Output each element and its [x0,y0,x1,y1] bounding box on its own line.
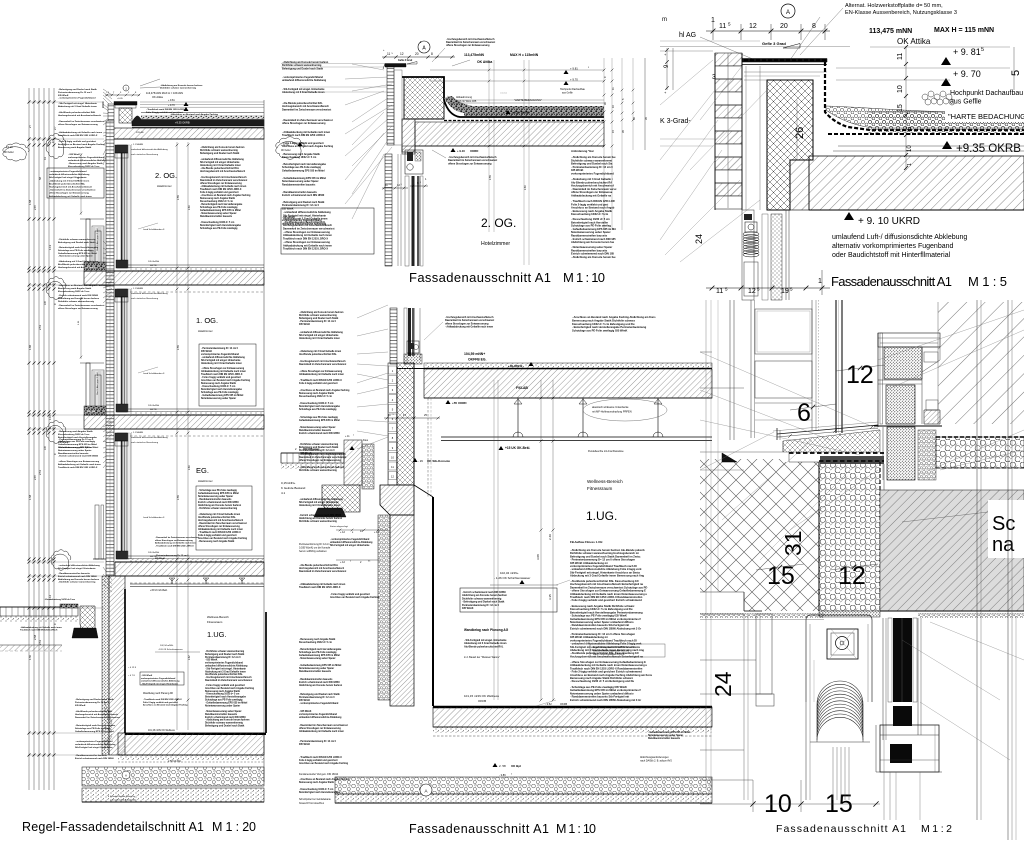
svg-text:Traufblech nach DIN EN 1253 LO: Traufblech nach DIN EN 1253 LORO-X [58,467,98,469]
E: left lower frame details [756,614,772,694]
svg-text:- 1.26 OK Schichtenwasser: - 1.26 OK Schichtenwasser [494,576,530,580]
svg-text:+15 UK GK-Bekl.: +15 UK GK-Bekl. [150,590,168,592]
svg-text:Abdichtung am Konsole herum fu: Abdichtung am Konsole herum fuehren [58,297,100,300]
svg-text:Glas H= Abst. gegen S verkl: Glas H= Abst. gegen S verkl [96,372,99,395]
svg-text:Pendelleuchte mit Anschlussdos: Pendelleuchte mit Anschlussdose [588,450,624,453]
B: interior dim verticals [488,60,490,232]
svg-text:- Attikaabdeckung mit Gefaelle: - Attikaabdeckung mit Gefaelle nach inne… [20,626,63,629]
svg-text:Attikaabdeckung mit Gefaelle n: Attikaabdeckung mit Gefaelle nach innen [58,463,101,466]
svg-text:- Alu-Blende pulverbeschichtet: - Alu-Blende pulverbeschichtet RAL [58,111,96,114]
svg-text:vorkomprimiertes Fugendichtban: vorkomprimiertes Fugendichtband [201,353,240,356]
svg-text:- Randdaemmstreifen bauseits: - Randdaemmstreifen bauseits [299,678,333,681]
svg-text:umlaufend diffusionsdichte Abk: umlaufend diffusionsdichte Abklebung [49,173,90,176]
C: pebble band green roof [826,106,1024,128]
svg-text:Daemmkeil im Zwischenraum vers: Daemmkeil im Zwischenraum verschweisst [299,456,346,459]
svg-text:umlaufend diffusionsdichte Abk: umlaufend diffusionsdichte Abklebung [330,541,373,544]
svg-text:- vorkomprimiertes Fugendichtb: - vorkomprimiertes Fugendichtband [49,170,87,173]
A: interior floor build-up lines [128,408,264,410]
svg-text:2.55: 2.55 [489,175,492,180]
svg-text:Attikaabdeckung mit Gefaelle n: Attikaabdeckung mit Gefaelle nach innen [201,370,247,373]
D: Kies strip [344,440,362,485]
svg-text:OKFFB EG.: OKFFB EG. [468,358,487,362]
svg-text:Abdeckung mit 3 Grad Gefaelle: Abdeckung mit 3 Grad Gefaelle innen [205,670,246,673]
svg-text:- Schutzlage aus PE-Folie zwei: - Schutzlage aus PE-Folie zweilagig [58,440,96,443]
C: long horizontal extension lines top left [660,46,850,48]
A: roof build-up dark band [132,116,264,126]
svg-text:- Hochzugsbereich mit Anschwei: - Hochzugsbereich mit Anschweissflansch [205,676,252,679]
E: lower window frame section [880,725,939,772]
svg-text:0kFTB: 0kFTB [150,409,157,411]
svg-text:Daemmkeil im Zwischenraum vers: Daemmkeil im Zwischenraum verschweisst [299,363,346,366]
svg-text:M 1 : 10: M 1 : 10 [563,270,605,285]
svg-text:aus Geflle: aus Geflle [950,99,982,106]
svg-text:2.55: 2.55 [177,495,180,500]
svg-text:19: 19 [781,288,789,295]
svg-text:- Dichtfolie schwarz wannenfoe: - Dichtfolie schwarz wannenfoermig [58,238,96,241]
svg-text:+ 4 12 8: + 4 12 8 [128,667,137,669]
svg-text:- 29: - 29 [418,459,423,463]
svg-text:- vorkomprimiertes Fugendichtb: - vorkomprimiertes Fugendichtband [299,702,339,705]
svg-text:Bemessung nach Angabe Statik: Bemessung nach Angabe Statik [299,392,335,395]
D: kerb concrete block [322,485,360,512]
svg-text:+ 1.1 MHRB: + 1.1 MHRB [131,144,144,146]
svg-text:- Anschluss an Bestand nach An: - Anschluss an Bestand nach Angabe Fachi… [200,194,251,197]
svg-text:vorkomprimiertes Fugendichtban: vorkomprimiertes Fugendichtband [571,172,614,176]
svg-text:- Attikaabdeckung mit Gefaelle: - Attikaabdeckung mit Gefaelle nach inne… [445,326,494,329]
D: basement wall [390,515,414,706]
E: left wall structure lines [700,351,712,353]
E: hatched anchor piece [924,410,940,424]
svg-text:Schutzlage aus PE-Folie zweila: Schutzlage aus PE-Folie zweilagig [205,699,243,702]
E: heavy corner mark [722,453,737,462]
svg-text:5: 5 [790,287,793,292]
svg-text:- Betonfertigteil nach Herstel: - Betonfertigteil nach Herstellerangabe … [572,325,647,329]
svg-text:umlaufend diffusionsdichte Abk: umlaufend diffusionsdichte Abklebung [131,436,168,439]
A: EG exterior: paving + kerb [0,607,78,616]
svg-text:2.58 UK Bpl: 2.58 UK Bpl [168,760,181,763]
svg-text:UK Bpl: UK Bpl [511,764,521,768]
svg-text:Anschluss an Bestand nach Anga: Anschluss an Bestand nach Angabe Faching [330,596,380,599]
B: right chain extra ticks [621,89,624,92]
svg-text:Folie 2-lagig verklebt und ges: Folie 2-lagig verklebt und gesichert [299,382,338,385]
B: mid dim row [382,187,408,189]
svg-text:Betonfertigteil nach Herstelle: Betonfertigteil nach Herstellerangabe [200,224,242,227]
svg-text:Hotelzimmer: Hotelzimmer [157,184,172,188]
svg-text:Estrich schwimmend nach DIN 18: Estrich schwimmend nach DIN 18560 Abdeck… [570,626,641,630]
svg-text:nach DAfStb 2. B. adicon AVS: nach DAfStb 2. B. adicon AVS [640,760,672,763]
svg-text:"HARTE BEDACHUNG": "HARTE BEDACHUNG" [948,112,1024,121]
svg-text:5: 5 [981,47,984,53]
svg-text:- Estrich schwimmend nach DIN: - Estrich schwimmend nach DIN 18560 [58,294,99,297]
C: small hardware center [745,222,757,232]
svg-text:Kiesschuettung 16/32 d= 5 cm: Kiesschuettung 16/32 d= 5 cm [58,433,89,436]
svg-text:- umlaufend diffusionsdichte A: - umlaufend diffusionsdichte Abklebung [201,356,245,359]
D: window above EG floor [390,308,397,364]
svg-text:- Hochzugsbereich mit Anschwei: - Hochzugsbereich mit Anschweissflansch [299,453,346,456]
svg-text:I-wnd Schallabsorber 8: I-wnd Schallabsorber 8 [143,228,165,231]
svg-text:Kiesschuettung 16/32 d= 5 cm: Kiesschuettung 16/32 d= 5 cm [68,165,99,168]
svg-text:2. 58: 2. 58 [499,764,506,768]
svg-text:OKFB: OKFB [560,702,567,706]
svg-text:Fitnessraum: Fitnessraum [207,620,223,624]
svg-text:+9.35 OKRB: +9.35 OKRB [175,121,190,125]
C: +9.35 OKRB [942,141,952,149]
svg-text:Fundamenterder VA4 gem. DIN 18: Fundamenterder VA4 gem. DIN 18014 [299,773,339,776]
svg-text:+ 9.10: + 9.10 [457,149,465,153]
svg-text:- Abdichtung am Konsole herum: - Abdichtung am Konsole herum fuehren [205,719,250,722]
A: balcony door sill block [84,406,106,415]
E: upper right wall sparse hatch [938,302,1024,424]
svg-text:Perimeterdaemmung D= 12 cm 0: Perimeterdaemmung D= 12 cm 0 [299,696,335,699]
svg-text:- umlaufend diffusionsdichte A: - umlaufend diffusionsdichte Abklebung [299,498,343,501]
svg-text:035 W/mK: 035 W/mK [462,607,474,610]
svg-text:Stb-Fertigteil mit eingel. Hin: Stb-Fertigteil mit eingel. Hinterkante [299,501,339,504]
svg-text:1.58: 1.58 [28,199,32,205]
svg-text:11: 11 [897,53,904,60]
svg-text:Befestigung und Duebel nach St: Befestigung und Duebel nach Statik [205,725,245,728]
svg-text:15: 15 [897,104,904,112]
svg-text:Alu-Blende pulverbeschichtet R: Alu-Blende pulverbeschichtet RAL [198,516,236,519]
svg-text:Gefle 3 Grad: Gefle 3 Grad [398,59,413,62]
svg-text:Hotelzimmer: Hotelzimmer [481,241,510,247]
E: ticks on sloped sill [788,434,792,438]
svg-text:Hochzugsbereich mit Anschweiss: Hochzugsbereich mit Anschweissflansch [200,170,246,173]
A: EG suspended ceiling [130,583,264,585]
svg-text:Gefaelledaemmung EPS 035 im Mi: Gefaelledaemmung EPS 035 im Mittel [299,419,340,422]
A: 1.OG note box [199,344,256,406]
E: glass pane double line [835,300,837,433]
svg-text:2.64: 2.64 [524,185,527,190]
svg-text:Abdeckung mit 3 Grad Gefaelle: Abdeckung mit 3 Grad Gefaelle innen [201,362,242,365]
svg-text:Schutzpotter ber Gebludekante: Schutzpotter ber Gebludekante [299,798,332,801]
svg-text:035 W/mK: 035 W/mK [201,351,212,353]
svg-text:Schutzlage aus PE-Folie zweila: Schutzlage aus PE-Folie zweilagig [201,391,239,394]
svg-text:Kiesschuettung 16/32 d= 5 cm: Kiesschuettung 16/32 d= 5 cm [58,290,89,293]
E: insulation wedge below sill [783,430,880,452]
drawing D: Fassadenausschnitt M 1:10 basement [281,305,712,836]
svg-text:- Bemessung nach Angabe Statik: - Bemessung nach Angabe Statik [299,638,336,641]
svg-text:- 3.86: - 3.86 [499,773,506,777]
svg-text:Wellness-Bereich: Wellness-Bereich [207,615,229,619]
svg-text:- Stb-Fertigteil mit eingel. H: - Stb-Fertigteil mit eingel. Hinterkante [141,682,179,685]
svg-text:- Hochzugsbereich mit Anschwei: - Hochzugsbereich mit Anschweissflansch [200,176,247,179]
D: basement floor slab [433,707,712,727]
svg-text:offene Stossfugen zur Entwaess: offene Stossfugen zur Entwaesserung [282,122,326,125]
svg-text:Notentwaesserung ueber Speier: Notentwaesserung ueber Speier [201,397,236,400]
A: section cut right edge [263,100,265,782]
A: framed note box left [47,168,104,198]
svg-text:6: 6 [797,399,811,427]
svg-text:- Folie 2-lagig verklebt und g: - Folie 2-lagig verklebt und gesichert [201,376,241,379]
B: bottom-left framed note [281,208,374,254]
svg-text:- Hochzugsbereich mit Anschwei: - Hochzugsbereich mit Anschweissflansch [299,360,346,363]
E: right edge verticals [976,300,978,820]
svg-text:+ 1.1 MHRB: + 1.1 MHRB [131,288,144,290]
A: window glazing run [117,289,127,412]
svg-text:Kies: Kies [363,438,369,442]
svg-text:Regel-Fassadendetailschnitt A: Regel-Fassadendetailschnitt A1 [22,820,204,834]
svg-text:Schutzlage aus PE-Folie zweila: Schutzlage aus PE-Folie zweilagig [200,206,238,209]
svg-text:+ 1.1 MHRB: + 1.1 MHRB [131,432,144,434]
svg-text:Attikadmmung: Attikadmmung [456,96,473,99]
drawing E: Fassadenausschnitt M 1:2 window sill [700,300,1024,840]
svg-text:offene Stossfugen zur Entwaess: offene Stossfugen zur Entwaesserung [49,192,89,195]
C: wall core verticals [745,66,747,210]
svg-text:2.51: 2.51 [38,324,42,330]
svg-text:Anschluss an Bestand nach Anga: Anschluss an Bestand nach Angabe Faching [299,762,349,765]
svg-text:2. OG.: 2. OG. [155,171,177,180]
svg-text:d= 8 cm WLG 035: d= 8 cm WLG 035 [456,100,477,103]
svg-text:M 1 : 20: M 1 : 20 [212,820,256,834]
svg-text:Perimeterdaemmung D= 12 cm 0: Perimeterdaemmung D= 12 cm 0 [205,656,241,659]
svg-text:- Abdeckung mit 3 Grad Gefaell: - Abdeckung mit 3 Grad Gefaelle innen [49,179,90,182]
svg-text:1.UG.: 1.UG. [207,630,227,639]
E: panel edge verticals [811,300,813,430]
svg-text:- Folie 2-lagig verklebt und g: - Folie 2-lagig verklebt und gesichert [330,593,370,596]
svg-text:- Abdichtung am Konsole herum: - Abdichtung am Konsole herum fuehren [200,146,245,149]
svg-text:Kiesschuettung 16/32 d= 5 cm: Kiesschuettung 16/32 d= 5 cm [299,395,332,398]
A: terrain line far left [0,644,62,646]
svg-text:Hochzugsbereich mit Anschweiss: Hochzugsbereich mit Anschweissflansch [49,186,93,189]
svg-text:- Kiesschuettung 16/32 d= 5 cm: - Kiesschuettung 16/32 d= 5 cm [201,385,235,388]
svg-text:umlaufend diffusionsdichte Abk: umlaufend diffusionsdichte Abklebung [131,292,168,295]
svg-text:offene Stossfugen zur Entwaess: offene Stossfugen zur Entwaesserung [198,525,240,528]
svg-text:Perimeterdaemmung D= 12 cm 0: Perimeterdaemmung D= 12 cm 0 [58,91,93,94]
svg-text:5: 5 [393,414,394,416]
svg-text:nach statischer Berechnung: nach statischer Berechnung [131,441,159,444]
svg-text:Abdichtung am Konsole herum fu: Abdichtung am Konsole herum fuehren [299,517,343,520]
svg-text:OK Attika: OK Attika [897,37,931,46]
svg-text:035 W/mK: 035 W/mK [75,705,86,707]
svg-text:102,34 mNN+: 102,34 mNN+ [500,571,519,575]
svg-text:- Stb-Fertigteil mit eingel. H: - Stb-Fertigteil mit eingel. Hinterkante [58,102,98,105]
svg-text:Kiesschuettung 16/32 d= 5 cm: Kiesschuettung 16/32 d= 5 cm [299,641,332,644]
svg-text:Anschluss an Bestand nach Anga: Anschluss an Bestand nach Angabe Faching [205,687,255,690]
svg-text:Bemessung nach Angabe Statik: Bemessung nach Angabe Statik [58,146,92,149]
svg-text:113,475 mNN: 113,475 mNN [869,28,912,35]
C: membrane thick dashed down right side [744,59,827,61]
E: box housing [806,615,872,702]
svg-text:1.13: 1.13 [48,244,52,250]
svg-text:5: 5 [511,774,512,776]
svg-text:- Gefaelledaemmung EPS 035 im: - Gefaelledaemmung EPS 035 im Mittel [299,664,342,667]
B: extension lines left of parapet [281,63,385,65]
E: upper window panels [755,309,812,354]
svg-text:5: 5 [390,184,391,186]
svg-text:- Kiesschuettung 16/32 d= 5 cm: - Kiesschuettung 16/32 d= 5 cm [205,693,239,696]
svg-text:- Traufblech nach DIN EN 1253: - Traufblech nach DIN EN 1253 LORO-X [146,109,187,111]
svg-text:Folie 2-lagig verklebt und ges: Folie 2-lagig verklebt und gesichert [299,759,338,762]
svg-text:- Dichtfolie schwarz wannenfoe: - Dichtfolie schwarz wannenfoermig [205,650,245,653]
svg-text:Hochzugsbereich mit Anschweiss: Hochzugsbereich mit Anschweissflansch [58,114,102,117]
svg-text:Stb-Fertigteil mit eingel. Hin: Stb-Fertigteil mit eingel. Hinterkante [201,359,241,362]
svg-text:- Gefaelledaemmung EPS 035 im: - Gefaelledaemmung EPS 035 im Mittel [648,731,691,734]
svg-text:Wandbelag nach Planung AG: Wandbelag nach Planung AG [464,628,509,632]
svg-text:K 3-Grad-: K 3-Grad- [660,118,691,125]
svg-text:- Estrich schwimmend nach DIN: - Estrich schwimmend nach DIN 18560 [299,514,342,517]
B: top dimension row [382,56,455,58]
svg-text:Estrich schwimmend nach DIN 18: Estrich schwimmend nach DIN 18560 [58,575,97,578]
svg-text:Befestigung und Duebel nach St: Befestigung und Duebel nach Statik [200,152,240,155]
svg-text:- Gefaelledaemmung EPS 035 im: - Gefaelledaemmung EPS 035 im Mittel [201,394,244,397]
svg-text:+55 UKRD: +55 UKRD [452,401,467,405]
svg-text:Bemessung nach Angabe Statik: Bemessung nach Angabe Statik [200,197,236,200]
svg-text:- 035 W/mK: - 035 W/mK [299,711,312,713]
svg-text:3.8: 3.8 [43,446,47,450]
svg-text:- Anschluss an Bestand nach An: - Anschluss an Bestand nach Angabe Fachi… [572,315,656,319]
svg-text:- Perimeterdaemmung D= 12 cm 0: - Perimeterdaemmung D= 12 cm 0 [299,740,337,743]
svg-text:- Anschluss an Bestand nach An: - Anschluss an Bestand nach Angabe Fachi… [299,389,350,392]
svg-text:- Daemmkeil im Zwischenraum ve: - Daemmkeil im Zwischenraum verschweisst [155,536,199,539]
D: interior wall face [414,485,433,497]
svg-text:A: A [786,10,790,16]
svg-text:Randdaemmstreifen bauseits: Randdaemmstreifen bauseits [205,713,238,716]
svg-text:0K Keller: 0K Keller [281,149,291,152]
E: lower left wall lines [700,613,744,615]
svg-text:+ 11: + 11 [345,435,350,438]
A: kerb stone [80,606,95,632]
A: interior floor build-up lines [128,264,264,266]
C: screed lines between membrane and slab [838,145,1024,147]
E: Sc na label box [988,500,1024,558]
A: balcony railings [86,219,90,271]
svg-text:Schutzlage aus PE-Folie zweila: Schutzlage aus PE-Folie zweilagig [299,651,337,654]
svg-text:Dichtfolie schwarz wannenfoerm: Dichtfolie schwarz wannenfoermig [205,722,243,725]
svg-text:+ 9.70: + 9.70 [570,78,578,82]
svg-text:102,34 mNN+: 102,34 mNN+ [160,645,174,647]
svg-text:Betonfertigteil nach Herstelle: Betonfertigteil nach Herstellerangabe [299,791,341,794]
svg-text:1: 1 [907,163,913,166]
svg-text:Dichtfolie schwarz wannenfoerm: Dichtfolie schwarz wannenfoermig [160,87,197,90]
svg-text:035 W/mK: 035 W/mK [299,324,310,326]
svg-text:5: 5 [1010,70,1022,76]
svg-text:offene Stossfugen zur Entwaess: offene Stossfugen zur Entwaesserung [448,162,492,165]
E: roller curtain arcs [817,681,863,704]
svg-text:Hochpunkt Dachaufbau: Hochpunkt Dachaufbau [950,90,1023,97]
E: frame below [883,772,885,820]
svg-text:Traufblech nach DIN EN 1253 LO: Traufblech nach DIN EN 1253 LORO-X [58,135,98,137]
svg-text:Abdichtung am Konsole herum fu: Abdichtung am Konsole herum fue [571,240,615,244]
svg-text:- offene Stossfugen zur Entwae: - offene Stossfugen zur Entwaesserung [201,367,245,370]
svg-text:vorkomprimiertes Fugendichtban: vorkomprimiertes Fugendichtband [205,662,244,665]
svg-text:umlaufend diffusionsdichte Abk: umlaufend diffusionsdichte Abklebung [205,665,248,668]
svg-text:105 0lu5Nk: 105 0lu5Nk [148,552,160,554]
D: suspended ceiling [441,436,712,438]
svg-text:2.64: 2.64 [188,205,191,210]
svg-text:Dichtfolie schwarz wannenfoerm: Dichtfolie schwarz wannenfoermig [299,469,337,472]
svg-text:- Kiesschuettung 16/32 d= 5 cm: - Kiesschuettung 16/32 d= 5 cm [200,221,234,224]
C: elevation labels right [941,57,951,65]
A: exterior insulated wall strip [106,121,114,576]
svg-text:8: 8 [431,52,433,56]
E: straps below curtain [832,747,834,800]
A: interior dimension verticals [176,142,178,730]
B: roof gravel band [444,96,604,113]
svg-text:- Traufblech nach DIN EN 1253: - Traufblech nach DIN EN 1253 LORO-X [299,757,342,759]
svg-text:20: 20 [780,23,788,30]
svg-text:- Randdaemmstreifen bauseits: - Randdaemmstreifen bauseits [198,498,232,501]
svg-text:- Gefaelledaemmung EPS 035 im: - Gefaelledaemmung EPS 035 im Mittel [205,701,248,704]
svg-text:offene Stossfugen zur Entwaess: offene Stossfugen zur Entwaesserung [299,727,341,730]
svg-text:- Traufblech nach DIN EN 1253: - Traufblech nach DIN EN 1253 LORO-X [299,380,342,382]
D: vertical dim lines centre [540,380,542,700]
svg-text:Abdeckung mit 3 Grad Gefaelle: Abdeckung mit 3 Grad Gefaelle innen [299,337,340,340]
A: window glazing run [117,145,127,268]
svg-text:26: 26 [794,127,806,139]
svg-text:in d. Bauart der "Weissen Wann: in d. Bauart der "Weissen Wanne" [464,656,500,659]
svg-text:Randdaemmstreifen bauseits: Randdaemmstreifen bauseits [282,183,316,186]
E: insulation band under frame right [936,437,1024,468]
A: balcony door sill block [84,262,106,271]
svg-text:- Kiesschuettung 16/32 d= 5 cm: - Kiesschuettung 16/32 d= 5 cm [299,788,333,791]
svg-text:A: A [424,789,427,794]
svg-text:+ 6.35: + 6.35 [48,142,55,144]
svg-text:- Daemmkeil im Zwischenraum ve: - Daemmkeil im Zwischenraum verschweisst [58,120,105,123]
A: floor slabs [84,271,264,285]
E: frame sill heavy line [874,425,942,427]
svg-text:+ 12: + 12 [340,531,346,534]
svg-text:- Anschluss an Bestand nach An: - Anschluss an Bestand nach Angabe Fachi… [170,113,219,116]
svg-text:2.51: 2.51 [38,639,42,645]
A: interior floor build-up lines [128,555,264,557]
svg-text:12: 12 [748,288,756,295]
svg-text:- Kiesschuettung 16/32 d= 5 cm: - Kiesschuettung 16/32 d= 5 cm [299,402,333,405]
svg-text:1.50: 1.50 [28,654,32,660]
svg-text:- Alu-Blende pulverbeschichtet: - Alu-Blende pulverbeschichtet RAL [299,564,339,567]
svg-text:Befestigung und Duebel nach St: Befestigung und Duebel nach Statik [299,446,339,449]
svg-text:FB-Aufbau Fitness 1.UG:: FB-Aufbau Fitness 1.UG: [570,540,603,544]
A: foundation gravel bands [82,767,264,786]
svg-text:12: 12 [749,23,757,30]
C: vertical dim chain [905,46,907,170]
svg-text:Attikaabdeckung mit Gefaelle n: Attikaabdeckung mit Gefaelle nach innen [299,373,345,376]
A: window glazing run [117,433,127,559]
svg-text:- Perimeterdaemmung D= 12 cm 0: - Perimeterdaemmung D= 12 cm 0 [201,347,239,350]
svg-text:+15 UK GK-Bekl.: +15 UK GK-Bekl. [505,446,530,450]
svg-text:offene Stossfugen zur Entwaess: offene Stossfugen zur Entwaesserung [58,307,98,310]
E: upper window jamb verticals [729,300,731,440]
svg-text:offene Stossfugen zur Entwaess: offene Stossfugen zur Entwaesserung [446,44,490,47]
svg-text:035 W/mK: 035 W/mK [299,744,310,746]
D: wall layers column [388,363,397,485]
svg-text:Attikaabdeckung mit Gefaelle n: Attikaabdeckung mit Gefaelle nach innen [299,730,345,733]
A: roof slab hatched [109,128,264,139]
svg-text:OK Stb-Konsole: OK Stb-Konsole [427,459,450,463]
svg-text:+ 9.70: + 9.70 [168,104,175,107]
svg-text:035 W/mK: 035 W/mK [58,95,69,97]
svg-text:Notentwaesserung ueber Speier: Notentwaesserung ueber Speier [58,449,92,452]
svg-text:- Daemmkeil im Zwischenraum ve: - Daemmkeil im Zwischenraum verschweisst [299,724,348,727]
svg-text:31: 31 [780,530,806,556]
C: coping dark [742,59,827,63]
svg-text:Dichtfolie schwarz wannenfoerm: Dichtfolie schwarz wannenfoermig [200,149,238,152]
svg-text:-1.26 OK Schichtenwasser: -1.26 OK Schichtenwasser [158,648,183,651]
svg-text:104,59 mNN+: 104,59 mNN+ [464,352,485,356]
svg-text:8: 8 [812,23,816,30]
E: blind guide rails [882,618,884,740]
svg-text:Kiesschuettung 16/32 d= 5 cm: Kiesschuettung 16/32 d= 5 cm [571,212,609,216]
svg-text:Befestigung und Duebel nach St: Befestigung und Duebel nach Statik [205,653,245,656]
svg-text:+ 9.10: + 9.10 [281,143,289,147]
svg-text:MAX H = 115 mNN: MAX H = 115 mNN [934,27,994,34]
drawing A: Regel-Fassadendetailschnitt M 1:20 [0,79,266,834]
svg-text:Estrich schwimmend nach DIN 18: Estrich schwimmend nach DIN 18560 [205,716,246,719]
B: circled index A [418,41,430,53]
svg-text:5: 5 [757,287,760,292]
svg-text:Alternat. Holzwerkstoffplatte: Alternat. Holzwerkstoffplatte d= 50 mm, [845,3,943,9]
svg-text:Bemessung nach Angabe Statik: Bemessung nach Angabe Statik [58,287,92,290]
svg-text:- Schutzlage aus PE-Folie zwei: - Schutzlage aus PE-Folie zweilagig [299,416,338,419]
